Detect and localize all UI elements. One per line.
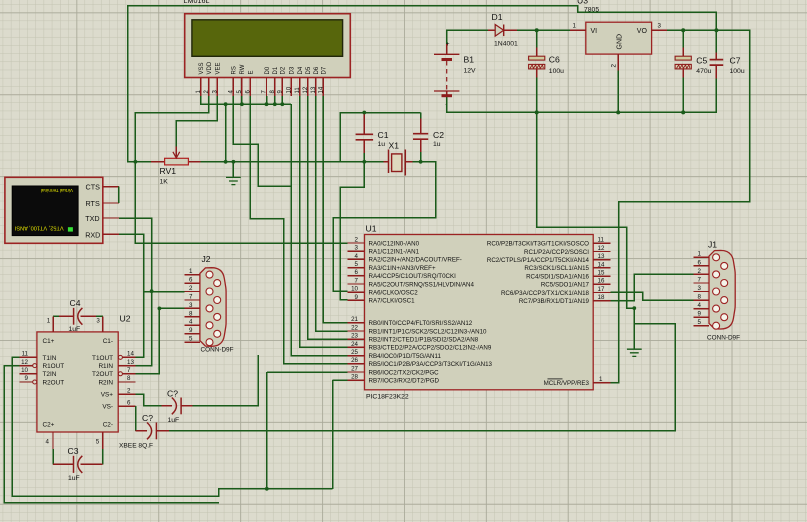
wire C5 bottom to rail [682,78,684,113]
U1 left pin numbers [351,236,358,380]
svg-text:470u: 470u [696,68,711,75]
wire ground rail PSU [447,78,717,112]
svg-text:RA0/C12IN0-/AN0: RA0/C12IN0-/AN0 [369,240,420,247]
svg-text:VT52, VT100, ANSI: VT52, VT100, ANSI [14,225,63,231]
svg-text:RA1/C12IN1-/AN1: RA1/C12IN1-/AN1 [369,249,420,256]
svg-text:26: 26 [351,357,358,364]
LCD pin stubs [201,78,323,97]
wire regulator VO to +5 corner and down-left to U1 MCLR [610,30,749,382]
svg-text:U1: U1 [366,223,377,233]
svg-text:VDD: VDD [207,61,213,74]
svg-text:7: 7 [698,276,702,283]
potentiometer RV1 1K [151,147,201,165]
capacitor C? upper 1uF xbee [135,355,258,414]
svg-text:RC7/P3B/RX1/DT1/AN19: RC7/P3B/RX1/DT1/AN19 [519,298,590,305]
svg-text:2: 2 [698,268,702,275]
svg-text:C6: C6 [549,55,560,65]
battery B1 [434,42,459,108]
svg-text:22: 22 [351,324,358,331]
U1 right pin stubs RC [593,243,610,382]
svg-text:4: 4 [698,302,702,309]
svg-text:1: 1 [47,318,51,325]
wire ground branch from rail down to ground dot [537,112,635,308]
svg-text:11: 11 [598,237,605,244]
svg-text:7: 7 [355,277,359,284]
svg-text:7805: 7805 [584,6,599,13]
J1 holes [713,254,728,329]
svg-text:X1: X1 [389,141,400,151]
svg-text:RB0/INT0/CCP4/FLT0/SRI/SS2/AN1: RB0/INT0/CCP4/FLT0/SRI/SS2/AN12 [369,320,473,327]
svg-text:13: 13 [127,359,134,366]
svg-text:10: 10 [21,367,28,374]
svg-text:R1OUT: R1OUT [43,363,65,370]
svg-text:14: 14 [127,351,134,358]
svg-text:1uF: 1uF [69,326,81,333]
svg-text:6: 6 [127,399,131,406]
svg-text:D3: D3 [289,66,295,74]
junction dot bottom run pin27 [265,487,269,491]
svg-text:D2: D2 [281,66,287,74]
wire D3 pin10 down to U1 pin25 [291,104,347,355]
svg-text:D4: D4 [298,66,304,74]
capacitor C1 1u [356,113,374,162]
svg-text:RC5/SDO1/AN17: RC5/SDO1/AN17 [541,282,590,289]
wire U1 pin28 horizontal [333,379,348,381]
svg-text:12V: 12V [464,68,477,75]
svg-text:XBEE 8Q.F: XBEE 8Q.F [119,442,153,449]
svg-text:11: 11 [22,351,29,358]
ground symbol right [627,349,642,356]
junction dots on LCD bus [224,102,228,106]
LCD display LM016L [185,14,351,78]
svg-text:Virtual Terminal: Virtual Terminal [41,188,73,193]
svg-text:D1: D1 [492,12,503,22]
svg-text:VSS: VSS [199,62,205,74]
svg-text:PIC18F23K22: PIC18F23K22 [366,393,409,400]
svg-text:RV1: RV1 [160,166,177,176]
wire U1 pin27 drop to bottom run [266,372,268,489]
svg-text:14: 14 [598,261,605,268]
svg-text:9: 9 [355,294,359,301]
wire regulator GND pin to rail [617,71,619,113]
svg-text:28: 28 [351,374,358,381]
svg-text:CONN-D9F: CONN-D9F [707,334,740,341]
svg-text:5: 5 [355,261,359,268]
U1 left pin stubs RA [348,243,365,380]
svg-text:6: 6 [698,259,702,266]
wire diode cathode to regulator VI [517,29,570,31]
svg-text:5: 5 [189,336,193,343]
svg-text:U2: U2 [120,314,131,324]
svg-text:3: 3 [355,245,359,252]
svg-text:2: 2 [127,388,131,395]
connector J2 CONN-D9F [200,268,226,347]
svg-text:RC4/SDI1/SDA1/AN16: RC4/SDI1/SDA1/AN16 [526,273,589,280]
svg-text:18: 18 [598,294,605,301]
svg-text:C5: C5 [696,56,707,66]
wire C6 bottom to rail [536,78,538,113]
capacitor C? lower xbee [136,406,169,439]
svg-text:100u: 100u [549,68,564,75]
svg-text:T1IN: T1IN [43,355,57,362]
svg-text:RC3/SCK1/SCL1/AN15: RC3/SCK1/SCL1/AN15 [524,265,589,272]
junction dot RV1 left +5 [134,160,138,164]
wire ground stem to symbol [633,308,635,349]
svg-text:VS+: VS+ [101,392,114,399]
wire TXD down to J2 pin2 net [119,218,152,291]
svg-text:2: 2 [355,236,359,243]
svg-text:RA4/CCP5/C1OUT/SRQ/T0CKI: RA4/CCP5/C1OUT/SRQ/T0CKI [369,273,457,280]
wire D5 pin12 to U1 pin23 [308,96,348,339]
svg-text:5: 5 [698,319,702,326]
wire U1 pin27 horizontal [267,371,348,373]
svg-text:1: 1 [573,23,577,30]
junction dots PSU [535,28,539,32]
svg-text:D7: D7 [322,66,328,74]
svg-text:J1: J1 [708,240,717,250]
wire C7 top lead [715,30,717,53]
junction dot C1 top [362,111,366,115]
wire C6 top lead [536,30,538,47]
svg-text:T2IN: T2IN [43,371,57,378]
svg-text:21: 21 [351,316,358,323]
capacitor C5 470u electrolytic [675,48,691,78]
chip U2 MAX232 [37,332,118,432]
svg-text:D0: D0 [265,66,271,74]
svg-text:VEE: VEE [215,62,221,74]
svg-text:C3: C3 [68,446,79,456]
wire J2 pin2 to T1OUT/R1IN net [144,291,185,293]
svg-text:1: 1 [599,376,603,383]
svg-text:24: 24 [351,341,358,348]
LCD pin name labels [199,61,328,74]
svg-text:RA2/C2IN+/AN2/DACOUT/VREF-: RA2/C2IN+/AN2/DACOUT/VREF- [369,257,462,264]
junction dot right ground [632,306,636,310]
svg-text:3: 3 [96,318,100,325]
wire RXD down to U2 T1OUT [119,234,144,357]
LCD pin numbers 1-14 [196,86,325,93]
svg-text:1uF: 1uF [68,475,80,482]
svg-text:RC6/P3A/CCP3/TX1/CK1/AN18: RC6/P3A/CCP3/TX1/CK1/AN18 [501,290,590,297]
svg-text:C4: C4 [70,298,81,308]
svg-text:12: 12 [303,86,309,93]
svg-text:11: 11 [295,87,301,94]
svg-text:R1IN: R1IN [98,363,113,370]
svg-text:TXD: TXD [85,214,99,223]
svg-text:25: 25 [351,349,358,356]
svg-text:C2+: C2+ [43,422,55,429]
svg-text:6: 6 [189,277,193,284]
J1 pin stubs and numbers [693,251,709,326]
wire bus drop to ground row [225,104,227,162]
svg-text:C?: C? [167,389,178,399]
svg-text:R2IN: R2IN [98,379,113,386]
diode D1 [488,25,517,37]
virtual terminal [5,177,119,243]
svg-text:C1: C1 [378,130,389,140]
svg-text:6: 6 [355,269,359,276]
wire +5V top run from 7805 output region to left rail [128,6,717,162]
svg-text:RC2/CTPLS/P1A/CCP1/T5CKI/AN14: RC2/CTPLS/P1A/CCP1/T5CKI/AN14 [487,257,590,264]
svg-text:27: 27 [351,365,358,372]
svg-text:RB4/IOC0/P1D/T5G/AN11: RB4/IOC0/P1D/T5G/AN11 [369,353,442,360]
svg-text:7: 7 [127,367,131,374]
svg-text:16: 16 [598,278,605,285]
svg-text:GND: GND [617,34,624,50]
wire VDD pin2 to +5 drop [135,96,209,162]
svg-text:2: 2 [611,64,618,68]
svg-text:7: 7 [189,293,193,300]
svg-text:RB3/CTED2/P2A/CCP2/SDO2/C12IN2: RB3/CTED2/P2A/CCP2/SDO2/C12IN2-/AN9 [369,345,492,352]
U1 right pin numbers [598,237,605,383]
svg-text:RC1/P2A/CCP2/SOSCI: RC1/P2A/CCP2/SOSCI [524,249,589,256]
svg-text:RA6/CLKO/OSC2: RA6/CLKO/OSC2 [369,290,419,297]
wire U1 pin18 RX to J1 pin2 [610,274,693,300]
svg-text:17: 17 [598,286,605,293]
U1 left pin labels [369,240,493,384]
svg-text:C1-: C1- [103,338,113,345]
junction dot J2 pin3 corner [158,307,162,311]
svg-text:U3: U3 [577,0,588,6]
svg-text:LM016L: LM016L [184,0,210,5]
wire OSC2 net to U1 pin10 [333,162,436,292]
svg-text:RB1/INT1/P1C/SCK2/SCL2/C12IN3-: RB1/INT1/P1C/SCK2/SCL2/C12IN3-/AN10 [369,328,488,335]
svg-text:3: 3 [658,23,662,30]
svg-text:D6: D6 [314,66,320,74]
capacitor C2 1u [413,113,428,162]
svg-text:RB6/IOC2/TX2/CK2/PGC: RB6/IOC2/TX2/CK2/PGC [369,369,440,376]
capacitor C3 1uF [53,449,103,473]
wire U1 pin28 drop to bottom run [332,380,334,489]
wire xbee ground run to right ground branch [169,324,675,431]
svg-text:1: 1 [189,268,193,275]
svg-text:C2-: C2- [103,422,113,429]
capacitor C7 100u [710,52,724,78]
svg-text:T2OUT: T2OUT [92,371,113,378]
svg-text:9: 9 [189,327,193,334]
U1 right pin labels [487,241,590,387]
svg-text:2: 2 [189,285,193,292]
wire OSC1 net to U1 pin9 [340,162,364,300]
svg-text:1K: 1K [160,178,169,185]
svg-text:RB2/INT2/CTED1/P1B/SDI2/SDA2/A: RB2/INT2/CTED1/P1B/SDI2/SDA2/AN8 [369,337,479,344]
J2 holes [206,271,221,346]
svg-text:J2: J2 [202,254,211,264]
svg-text:1u: 1u [433,141,441,148]
wire J2 pin3 to T2OUT [135,308,184,373]
svg-text:RA3/C1IN+/AN3/VREF+: RA3/C1IN+/AN3/VREF+ [369,265,436,272]
connector J1 CONN-D9F [709,250,735,329]
svg-text:13: 13 [311,86,317,93]
svg-text:C7: C7 [730,56,741,66]
junction dot X1 right [419,160,423,164]
capacitor C4 1uF [53,308,103,332]
svg-text:15: 15 [598,270,605,277]
svg-text:5: 5 [96,439,100,446]
svg-text:MCLR/VPP/RE3: MCLR/VPP/RE3 [544,380,590,387]
svg-text:RC0/P2B/T3CKI/T3G/T1CKI/SOSCO: RC0/P2B/T3CKI/T3G/T1CKI/SOSCO [487,241,589,248]
svg-text:C?: C? [142,413,153,423]
wire +5 drop to U1 RA0 [135,162,347,243]
svg-text:T1OUT: T1OUT [92,355,113,362]
svg-text:RA7/CLKI/OSC1: RA7/CLKI/OSC1 [369,298,416,305]
svg-text:RXD: RXD [85,230,100,239]
wire D0 pin7 stub to bus [266,96,268,104]
wire C1 top to C2 top bridge [340,113,420,162]
svg-text:10: 10 [351,286,358,293]
wire D2 pin9 stub to bus [281,96,283,104]
svg-text:CTS: CTS [86,183,101,192]
svg-text:VS-: VS- [102,404,113,411]
wire C5 top lead [682,30,684,47]
svg-text:3: 3 [698,285,702,292]
svg-text:3: 3 [189,302,193,309]
svg-text:4: 4 [355,253,359,260]
svg-text:RW: RW [240,64,246,74]
svg-text:C1+: C1+ [43,338,55,345]
svg-text:9: 9 [25,375,29,382]
wire CTS-RTS loopback [118,187,120,203]
svg-text:RS: RS [232,66,238,74]
wire T1IN to bottom run [12,357,332,496]
svg-text:12: 12 [598,245,605,252]
wire D7 pin14 to U1 pin21 [323,96,347,323]
crystal X1 [364,150,420,176]
svg-text:1: 1 [698,251,702,258]
svg-text:RB7/IOC3/RX2/DT2/PGD: RB7/IOC3/RX2/DT2/PGD [369,378,440,385]
wire VEE pin3 to RV1 wiper [176,96,217,147]
wire E pin6 jog to U1 pin26 [250,96,347,364]
junction dot bus drop on ground row [224,160,228,164]
wire R1OUT to bottom run [4,366,218,503]
svg-text:23: 23 [351,333,358,340]
wire battery positive to diode anode [447,30,489,53]
svg-text:8: 8 [189,310,193,317]
svg-text:10: 10 [286,86,292,93]
wire D1 pin8 stub to bus [274,96,276,104]
svg-text:RTS: RTS [86,199,100,208]
U2 pin stubs and numbers [20,318,136,449]
svg-text:1uF: 1uF [168,417,180,424]
capacitor C6 100u electrolytic [529,48,545,78]
svg-text:E: E [249,70,255,74]
svg-text:4: 4 [189,319,193,326]
wire R1IN up to J2 pin2 dot [135,291,151,366]
svg-text:B1: B1 [464,54,475,64]
svg-text:1u: 1u [378,141,386,148]
svg-text:9: 9 [698,311,702,318]
svg-text:R2OUT: R2OUT [43,379,65,386]
wire D6 pin13 to U1 pin22 [316,96,348,331]
svg-text:D1: D1 [273,66,279,74]
svg-text:12: 12 [21,359,28,366]
svg-text:4: 4 [46,439,50,446]
chip U1 PIC18F23K22 [365,235,594,390]
svg-text:C2: C2 [433,130,444,140]
svg-text:VI: VI [591,28,598,35]
junction dot ground stem [232,160,236,164]
svg-text:RB5/IOC1/P2B/P3A/CCP3/T3CKI/T1: RB5/IOC1/P2B/P3A/CCP3/T3CKI/T1G/AN13 [369,361,493,368]
svg-text:CONN-D9F: CONN-D9F [201,347,234,354]
wire RS pin4 zigzag to U1 RB4 [233,96,291,186]
wire RW pin5 stub to bus [241,96,243,104]
wire ground row RV1 right to crystal node [200,161,364,163]
wire D4 pin11 to U1 pin24 [300,96,348,347]
svg-text:13: 13 [598,253,605,260]
svg-text:8: 8 [698,294,702,301]
junction dot J2 pin2 net [150,289,154,293]
svg-text:8: 8 [127,375,131,382]
J2 pin stubs and numbers [185,268,200,343]
wire LCD ground bus under pins [201,96,291,104]
svg-text:D5: D5 [306,66,312,74]
wire U1 pin17 TX to J1 pin8 [610,292,693,300]
svg-text:RA5/C2OUT/SRNQ/SS1/HLVDIN/AN4: RA5/C2OUT/SRNQ/SS1/HLVDIN/AN4 [369,281,475,288]
svg-text:100u: 100u [730,68,745,75]
ground symbol below RV1 [226,162,241,185]
svg-text:+: + [446,42,450,48]
svg-text:14: 14 [319,86,325,93]
junction dot X1 left ground [362,160,366,164]
svg-text:VO: VO [637,28,648,35]
svg-text:1N4001: 1N4001 [494,41,518,48]
